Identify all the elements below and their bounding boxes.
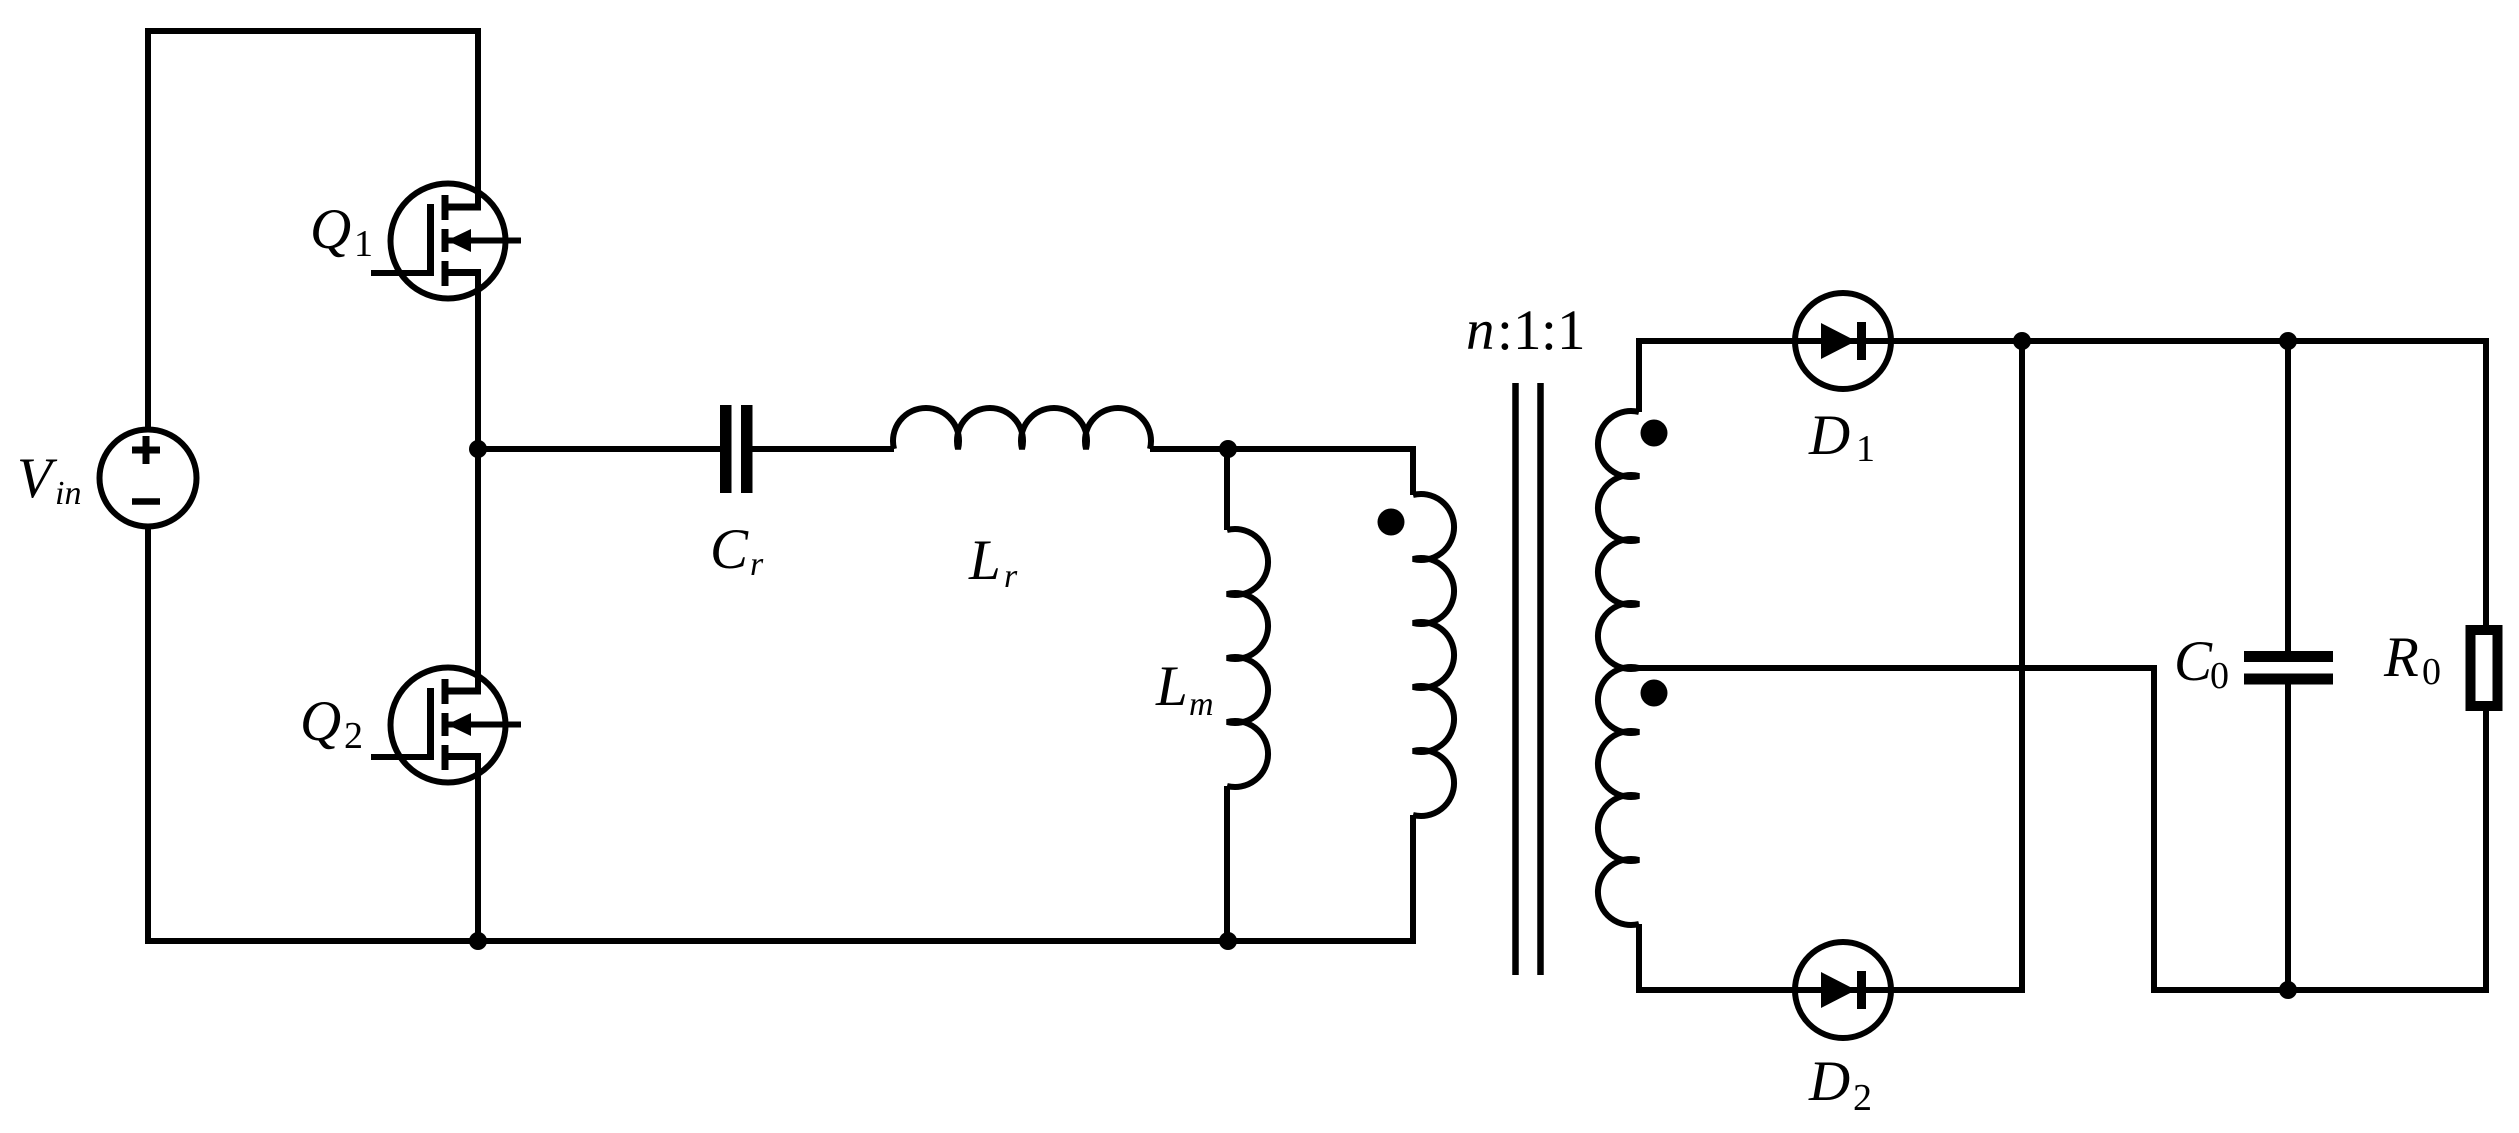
resistor R0: [2471, 630, 2498, 706]
svg-text:2: 2: [1853, 1077, 1872, 1119]
diode D2: [1795, 942, 1891, 1038]
svg-text:1: 1: [1856, 428, 1875, 470]
secondary lower phase dot: [1641, 680, 1668, 707]
label Lm: [1155, 655, 1214, 723]
diode D1: [1795, 293, 1891, 389]
svg-text:L: L: [968, 529, 1001, 592]
label Cr: [710, 518, 764, 583]
svg-text:D: D: [1808, 404, 1850, 467]
label Lr: [968, 529, 1018, 595]
label D2: [1808, 1050, 1872, 1119]
junction dot bottom rail at Q leg: [469, 932, 487, 950]
svg-text:1: 1: [354, 223, 373, 265]
wire node B to transformer primary top: [1228, 449, 1413, 495]
svg-text:Q: Q: [300, 690, 341, 753]
label n:1:1: [1466, 299, 1586, 362]
transistor Q2 (MOSFET): [371, 668, 521, 783]
label Q1: [310, 198, 373, 265]
junction dot bottom rail at Lm/primary: [1219, 932, 1237, 950]
node B junction dot: [1219, 440, 1237, 458]
wire Q1 source to node A: [475, 273, 481, 450]
svg-text:L: L: [1155, 655, 1188, 718]
primary phase dot: [1378, 509, 1405, 536]
node A junction dot: [469, 440, 487, 458]
label C0: [2174, 630, 2229, 697]
svg-text:2: 2: [344, 715, 363, 757]
label Q2: [300, 690, 363, 757]
transformer secondary upper winding: [1598, 411, 1639, 669]
inductor Lr: [893, 408, 1151, 449]
wire center tap to output bottom rail: [1639, 668, 2486, 990]
svg-text:0: 0: [2422, 651, 2441, 693]
transistor Q1 (MOSFET): [371, 184, 521, 299]
svg-text:m: m: [1189, 686, 1214, 723]
svg-text:Q: Q: [310, 198, 351, 261]
capacitor C0: [2244, 651, 2333, 685]
capacitor Cr: [720, 405, 753, 493]
wire secondary bottom lead through D2 to cathode rail: [1639, 341, 2022, 990]
svg-text::: :: [1497, 299, 1513, 362]
wire input loop: left rail top + top rail + Q1 drain rail: [148, 31, 478, 430]
wire secondary top lead and output top rail: [1639, 341, 2486, 627]
transformer core: [1516, 383, 1541, 975]
wire Vin bottom to bottom rail: [148, 527, 1228, 942]
label Vin: [17, 447, 81, 512]
svg-text:r: r: [1004, 558, 1018, 595]
svg-text:1: 1: [1513, 299, 1542, 362]
wire C0 branch bottom: [2285, 684, 2291, 990]
secondary upper phase dot: [1641, 420, 1668, 447]
wire node A to Q2 drain: [475, 449, 481, 691]
svg-text:0: 0: [2210, 655, 2229, 697]
svg-text:1: 1: [1557, 299, 1586, 362]
voltage source Vin: [100, 430, 197, 527]
svg-text:R: R: [2383, 626, 2419, 689]
svg-text:D: D: [1808, 1050, 1850, 1113]
svg-text:n: n: [1466, 299, 1495, 362]
label D1: [1808, 404, 1875, 470]
junction dot D1-D2 rail: [2013, 332, 2031, 350]
svg-text:C: C: [2174, 630, 2213, 693]
label R0: [2383, 626, 2441, 693]
wire Lr to node B: [1150, 446, 1228, 452]
transformer secondary lower winding: [1598, 667, 1639, 925]
junction dot C0 bottom: [2279, 981, 2297, 999]
svg-text:V: V: [17, 447, 58, 510]
wire primary bottom to node C: [1228, 815, 1413, 941]
svg-text::: :: [1541, 299, 1557, 362]
wire Cr to Lr: [753, 446, 895, 452]
wire Q2 source to bottom rail: [475, 757, 481, 942]
wire node A to Cr: [478, 446, 720, 452]
wire bottom rail: [478, 938, 1228, 944]
wire C0 branch top: [2285, 341, 2291, 651]
junction dot C0 top: [2279, 332, 2297, 350]
svg-text:r: r: [750, 546, 764, 583]
inductor Lm (with connecting stubs): [1227, 449, 1268, 941]
svg-text:in: in: [55, 475, 81, 512]
transformer primary winding: [1413, 494, 1454, 816]
svg-text:C: C: [710, 518, 749, 581]
